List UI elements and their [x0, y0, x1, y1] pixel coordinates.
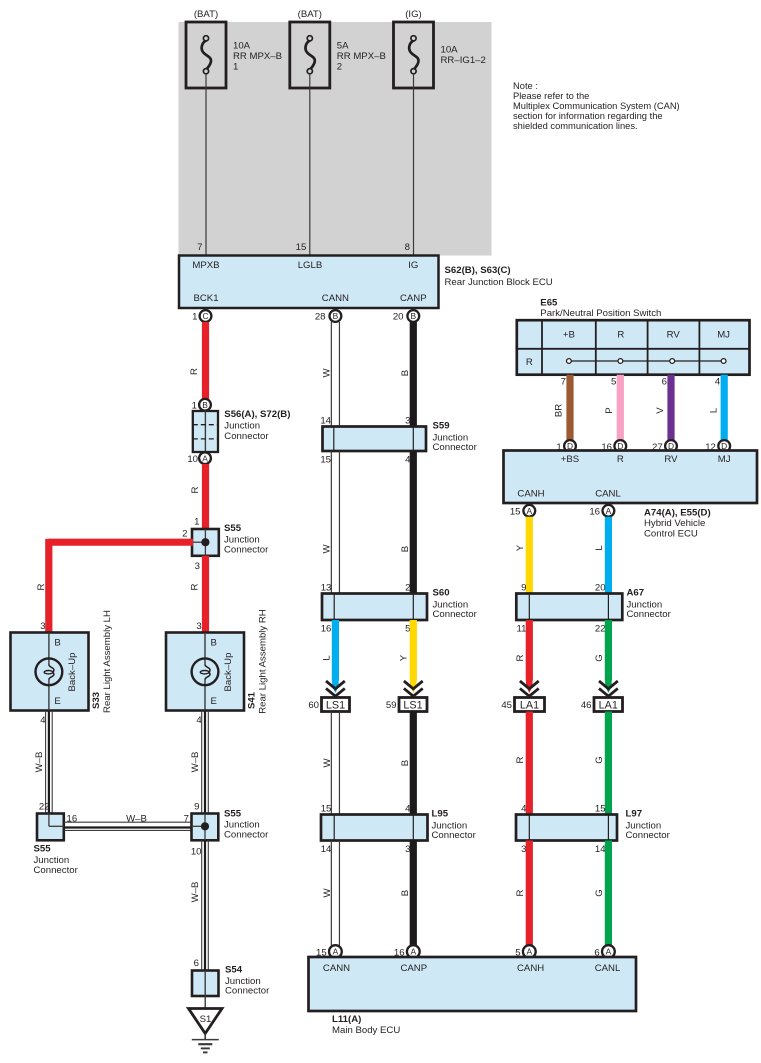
wire R: A67 to LA1 arrow — [515, 620, 529, 681]
svg-text:G: G — [594, 654, 605, 661]
svg-text:S55: S55 — [34, 844, 52, 855]
inline connector LA1 pin 45 — [501, 698, 544, 712]
wire L: S60 to LS1 arrow — [322, 620, 336, 681]
svg-text:B: B — [400, 370, 411, 376]
svg-text:5A: 5A — [337, 41, 349, 52]
svg-text:14: 14 — [320, 416, 331, 427]
svg-text:L11(A): L11(A) — [332, 1014, 361, 1025]
wire W-B: S41 to S55 (lower right) — [190, 711, 208, 814]
svg-text:LA1: LA1 — [599, 699, 618, 711]
svg-text:15: 15 — [595, 804, 606, 815]
arrow into LS1 (pin 60) — [326, 680, 345, 698]
main body ECU L11(A) — [309, 957, 637, 1036]
wire: fuse to pin 8 — [405, 74, 414, 256]
svg-text:CANH: CANH — [517, 489, 544, 500]
svg-text:2: 2 — [337, 62, 342, 73]
svg-text:+B: +B — [563, 330, 575, 341]
svg-text:W–B: W–B — [34, 752, 45, 773]
wire W shielded: L95 to main body ECU — [322, 841, 339, 946]
svg-text:S55: S55 — [224, 523, 242, 534]
svg-text:S41: S41 — [246, 691, 257, 709]
svg-text:B: B — [400, 546, 411, 552]
junction connector S55 (lower left) — [34, 802, 79, 876]
svg-text:(IG): (IG) — [405, 9, 422, 20]
svg-text:S1: S1 — [200, 1014, 212, 1025]
wire L: CANL to A67 — [594, 517, 608, 594]
connector pin 6 (A) main body ECU — [594, 945, 614, 958]
svg-text:C: C — [202, 311, 208, 321]
svg-text:CANN: CANN — [322, 293, 349, 304]
svg-text:L95: L95 — [432, 809, 449, 820]
svg-text:7: 7 — [184, 814, 189, 825]
svg-text:9: 9 — [194, 802, 199, 813]
svg-text:R: R — [617, 454, 624, 465]
svg-text:1: 1 — [233, 62, 238, 73]
svg-text:59: 59 — [386, 700, 397, 711]
svg-text:B: B — [54, 638, 60, 649]
connector pin 12 (D) — [705, 440, 730, 453]
svg-text:(BAT): (BAT) — [298, 9, 322, 20]
connector pin 27 (D) — [652, 440, 677, 453]
svg-text:7: 7 — [561, 376, 566, 387]
wire R: BCK1 to S56 — [189, 322, 205, 399]
svg-text:6: 6 — [194, 958, 199, 969]
svg-text:Connector: Connector — [224, 544, 269, 555]
wire: fuse to pin 15 — [296, 74, 310, 256]
svg-text:Connector: Connector — [225, 986, 270, 997]
svg-text:LS1: LS1 — [403, 699, 422, 711]
svg-text:LA1: LA1 — [520, 699, 539, 711]
svg-text:15: 15 — [320, 455, 331, 466]
svg-text:A: A — [202, 453, 208, 463]
note text — [513, 81, 680, 131]
svg-text:B: B — [400, 890, 411, 896]
svg-text:3: 3 — [40, 621, 45, 632]
svg-text:2: 2 — [405, 583, 410, 594]
svg-text:A67: A67 — [627, 588, 645, 599]
svg-text:6: 6 — [662, 376, 667, 387]
svg-text:R: R — [515, 654, 526, 661]
fuse 5A RR MPX–B 2 (BAT) — [290, 9, 386, 88]
svg-text:14: 14 — [595, 844, 606, 855]
svg-text:BR: BR — [553, 404, 564, 417]
wire B: LS1 to L95 — [400, 712, 413, 815]
svg-text:R: R — [515, 889, 526, 896]
svg-text:9: 9 — [521, 583, 526, 594]
wire: fuse to pin 7 — [197, 74, 206, 256]
junction connector S55 (lower right) — [191, 802, 269, 858]
wire G: LA1 to L97 — [594, 712, 608, 815]
connector pin 28 (B) CANN — [315, 310, 341, 322]
svg-text:Rear Light Assembly LH: Rear Light Assembly LH — [102, 610, 113, 713]
svg-text:22: 22 — [39, 802, 50, 813]
svg-text:Connector: Connector — [433, 442, 478, 453]
svg-text:E: E — [211, 696, 217, 707]
svg-text:CANL: CANL — [595, 963, 621, 974]
connector pin 16 (A) main body ECU — [394, 945, 420, 958]
wire R: S55 to S41 — [190, 556, 206, 633]
wire W-B: S55 to S55 horizontal — [64, 814, 192, 831]
svg-text:S33: S33 — [91, 692, 102, 709]
svg-text:L: L — [594, 545, 605, 551]
svg-text:E: E — [54, 696, 60, 707]
connector pin 20 (B) CANP — [393, 310, 419, 322]
inline connector LS1 pin 60 — [308, 698, 349, 712]
svg-text:8: 8 — [405, 242, 410, 253]
svg-text:60: 60 — [308, 700, 319, 711]
wire R: S56 to S55 — [190, 464, 205, 529]
svg-text:R: R — [190, 486, 201, 493]
svg-text:E65: E65 — [540, 298, 558, 309]
svg-text:R: R — [617, 330, 624, 341]
svg-text:B: B — [333, 311, 339, 321]
svg-text:1: 1 — [192, 312, 197, 323]
svg-text:28: 28 — [315, 312, 326, 323]
junction connector A67 — [516, 583, 671, 635]
svg-text:16: 16 — [589, 507, 600, 518]
inline connector LA1 pin 46 — [581, 698, 623, 712]
svg-text:Y: Y — [399, 654, 410, 661]
gray power-feed panel — [179, 22, 492, 256]
svg-text:46: 46 — [581, 700, 592, 711]
connector pin 16 (A) CANL — [589, 505, 614, 518]
svg-text:A: A — [606, 506, 612, 516]
svg-text:Rear Light Assembly RH: Rear Light Assembly RH — [258, 609, 269, 714]
svg-text:Connector: Connector — [432, 830, 477, 841]
svg-text:G: G — [594, 889, 605, 896]
fuse 10A RR MPX–B 1 (BAT) — [186, 9, 282, 88]
svg-text:16: 16 — [321, 624, 332, 635]
inline connector LS1 pin 59 — [386, 698, 427, 712]
svg-text:G: G — [594, 756, 605, 763]
junction connector S54 — [192, 958, 270, 997]
svg-text:CANN: CANN — [323, 963, 350, 974]
arrow into LS1 (pin 59) — [404, 680, 423, 698]
wire Y: CANH to A67 — [515, 517, 529, 594]
wire V: E65 pin 6 to HV ECU — [655, 375, 671, 441]
fuse 10A RR–IG1–2 (IG) — [394, 9, 486, 88]
svg-text:45: 45 — [501, 700, 512, 711]
svg-text:Hybrid Vehicle: Hybrid Vehicle — [644, 518, 705, 529]
svg-text:S60: S60 — [433, 588, 450, 599]
wire W-B: S33 to S55 (lower left) — [34, 711, 52, 814]
wire B: CANP to S59 — [400, 322, 413, 427]
svg-text:W: W — [322, 758, 333, 768]
svg-text:Please refer to the: Please refer to the — [513, 91, 589, 101]
svg-text:11: 11 — [517, 624, 527, 635]
svg-text:LS1: LS1 — [326, 699, 345, 711]
junction connector S56(A), S72(B) — [187, 399, 290, 465]
svg-text:L97: L97 — [626, 809, 643, 820]
svg-text:7: 7 — [197, 242, 202, 253]
ground S1 — [189, 996, 223, 1052]
svg-text:R: R — [189, 368, 200, 375]
svg-text:13: 13 — [321, 583, 332, 594]
svg-text:Connector: Connector — [224, 829, 269, 840]
connector pin 15 (A) CANH — [510, 505, 535, 518]
svg-text:S56(A), S72(B): S56(A), S72(B) — [224, 409, 290, 420]
rear light assembly RH S41 (back-up bulb) — [166, 609, 269, 726]
svg-text:2: 2 — [182, 529, 187, 540]
svg-text:section for information regard: section for information regarding the — [513, 111, 663, 121]
wire BR: E65 pin 7 to HV ECU — [553, 375, 570, 441]
svg-text:Main Body ECU: Main Body ECU — [332, 1025, 400, 1036]
svg-text:10: 10 — [191, 847, 202, 858]
svg-text:A: A — [411, 947, 417, 957]
svg-text:+BS: +BS — [561, 454, 579, 465]
svg-text:Control ECU: Control ECU — [644, 529, 698, 540]
connector pin 15 (A) main body ECU — [316, 945, 342, 958]
svg-text:3: 3 — [521, 844, 526, 855]
svg-text:W–B: W–B — [190, 752, 201, 773]
svg-text:3: 3 — [196, 621, 201, 632]
svg-text:RV: RV — [667, 330, 681, 341]
svg-text:Park/Neutral Position Switch: Park/Neutral Position Switch — [540, 308, 661, 319]
park/neutral position switch E65 — [517, 298, 750, 375]
svg-text:S54: S54 — [225, 965, 243, 976]
hybrid vehicle control ECU A74(A), E55(D) — [504, 451, 758, 540]
wire B: L95 to main body ECU — [400, 841, 413, 946]
svg-text:MJ: MJ — [717, 330, 730, 341]
svg-text:10: 10 — [187, 454, 198, 465]
wire P: E65 pin 5 to HV ECU — [604, 375, 620, 441]
junction connector L95 — [321, 804, 477, 856]
wire W shielded: LS1 to L95 — [322, 712, 339, 815]
svg-text:B: B — [411, 311, 417, 321]
svg-text:(BAT): (BAT) — [194, 9, 218, 20]
connector pin 5 (A) main body ECU — [515, 945, 535, 958]
svg-text:MJ: MJ — [718, 454, 731, 465]
svg-text:MPXB: MPXB — [192, 260, 219, 271]
svg-text:10A: 10A — [233, 41, 251, 52]
arrow into LA1 (pin 45) — [520, 680, 539, 698]
svg-text:Back–Up: Back–Up — [67, 653, 78, 692]
svg-text:B: B — [202, 400, 208, 410]
svg-text:R: R — [526, 357, 533, 368]
svg-text:5: 5 — [405, 624, 410, 635]
svg-text:RR MPX–B: RR MPX–B — [337, 51, 386, 62]
svg-text:Connector: Connector — [34, 865, 79, 876]
svg-text:1: 1 — [194, 517, 199, 528]
svg-text:shielded communication lines.: shielded communication lines. — [513, 121, 638, 131]
ECU S62(B), S63(C) Rear Junction Block ECU — [179, 256, 553, 309]
svg-text:Rear Junction Block ECU: Rear Junction Block ECU — [445, 277, 553, 288]
svg-text:Y: Y — [515, 544, 526, 551]
wire Y: S60 to LS1 arrow — [399, 620, 414, 681]
svg-text:R: R — [515, 756, 526, 763]
arrow into LA1 (pin 46) — [599, 680, 618, 698]
svg-text:20: 20 — [393, 312, 404, 323]
svg-text:3: 3 — [405, 416, 410, 427]
svg-text:A: A — [527, 506, 533, 516]
svg-text:R: R — [36, 583, 47, 590]
wire B: S59 to S60 — [400, 451, 413, 594]
svg-text:W: W — [322, 888, 333, 898]
svg-text:RR MPX–B: RR MPX–B — [233, 51, 282, 62]
wire G: L97 to main body ECU — [594, 841, 608, 946]
wire W-B: S55 to S54 — [190, 840, 208, 970]
svg-text:CANP: CANP — [400, 963, 427, 974]
svg-text:Connector: Connector — [627, 609, 672, 620]
rear light assembly LH S33 (back-up bulb) — [11, 610, 114, 726]
svg-text:4: 4 — [521, 804, 527, 815]
svg-text:L: L — [322, 655, 333, 661]
svg-text:S55: S55 — [224, 809, 242, 820]
connector pin 16 (D) — [601, 440, 626, 453]
svg-text:Note :: Note : — [513, 81, 538, 91]
svg-text:S59: S59 — [433, 421, 450, 432]
junction connector L97 — [516, 804, 671, 856]
svg-text:4: 4 — [405, 804, 411, 815]
svg-text:CANH: CANH — [517, 963, 544, 974]
svg-text:22: 22 — [595, 624, 606, 635]
svg-text:Multiplex Communication System: Multiplex Communication System (CAN) — [513, 101, 680, 111]
svg-text:LGLB: LGLB — [298, 260, 323, 271]
wire R: L97 to main body ECU — [515, 841, 529, 946]
svg-text:W–B: W–B — [126, 814, 147, 825]
svg-text:3: 3 — [195, 561, 200, 572]
svg-text:W–B: W–B — [190, 882, 201, 903]
svg-text:A: A — [333, 947, 339, 957]
svg-text:5: 5 — [611, 376, 616, 387]
svg-text:4: 4 — [715, 376, 721, 387]
svg-text:RR–IG1–2: RR–IG1–2 — [441, 55, 486, 66]
svg-text:W: W — [322, 368, 333, 378]
svg-text:10A: 10A — [441, 45, 459, 56]
connector pin 1 (D) — [556, 440, 576, 453]
svg-text:15: 15 — [296, 242, 307, 253]
svg-text:RV: RV — [664, 454, 678, 465]
svg-text:A: A — [527, 947, 533, 957]
wire L: E65 pin 4 to HV ECU — [708, 375, 724, 441]
connector pin 1 (C) BCK1 — [192, 310, 211, 322]
wire R: LA1 to L97 — [515, 712, 529, 815]
svg-text:B: B — [400, 760, 411, 766]
svg-text:15: 15 — [510, 507, 521, 518]
svg-text:Back–Up: Back–Up — [223, 653, 234, 692]
svg-text:CANP: CANP — [400, 293, 427, 304]
junction connector S55 (upper) — [182, 517, 269, 573]
svg-text:20: 20 — [595, 583, 606, 594]
svg-text:Connector: Connector — [224, 431, 269, 442]
svg-text:A: A — [606, 947, 612, 957]
svg-text:B: B — [211, 638, 217, 649]
svg-text:IG: IG — [408, 260, 418, 271]
svg-text:14: 14 — [321, 844, 332, 855]
svg-text:BCK1: BCK1 — [193, 293, 218, 304]
svg-text:3: 3 — [405, 844, 410, 855]
wire W shielded: S59 to S60 — [322, 451, 340, 594]
svg-text:R: R — [190, 583, 201, 590]
svg-text:S62(B), S63(C): S62(B), S63(C) — [445, 265, 511, 276]
wire W shielded: CANN to S59 — [322, 322, 340, 427]
svg-text:W: W — [322, 544, 333, 554]
wire G: A67 to LA1 arrow — [594, 620, 608, 681]
svg-text:Connector: Connector — [433, 609, 478, 620]
junction connector S60 — [321, 583, 478, 635]
svg-text:L: L — [708, 407, 719, 413]
junction connector S59 — [320, 416, 477, 466]
svg-text:A74(A), E55(D): A74(A), E55(D) — [644, 508, 711, 519]
svg-text:P: P — [604, 407, 615, 413]
svg-text:15: 15 — [321, 804, 332, 815]
svg-text:Connector: Connector — [626, 830, 671, 841]
svg-text:16: 16 — [67, 814, 78, 825]
svg-text:CANL: CANL — [595, 489, 621, 500]
svg-text:V: V — [655, 407, 666, 414]
wire R: S55 left branch to S33 — [36, 539, 193, 633]
